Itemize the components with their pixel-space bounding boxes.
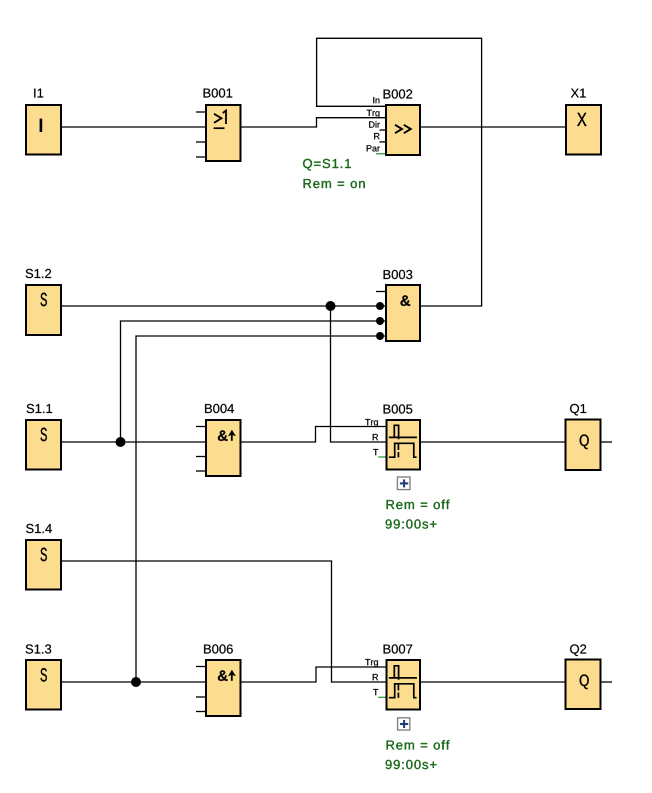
pin label T [373,449,378,455]
param text Rem = off (B007) [387,740,450,750]
wire S1.1 branch to B003 in3 [121,321,386,442]
label S1.2 [26,269,51,278]
OR gate B001 [196,105,241,161]
pin label Trg [367,110,380,118]
input block S1.2 [26,285,61,335]
wire S1.1 to B004 [62,441,205,443]
pin label Trg [365,659,378,667]
label B003 [384,270,413,279]
wire S1.3 to B006 [62,681,205,683]
pin label In [373,97,379,103]
label B005 [384,404,413,413]
AND edge gate B004 [196,420,241,476]
label S1.1 [27,404,52,413]
pin label R [373,434,378,440]
pin label R [373,674,378,680]
pin dot B003 in4 [376,332,384,340]
label B002 [384,89,413,98]
param text 99:00s+ (B005) [386,519,437,528]
feedback wire B003 out to B002 In [317,38,482,306]
wire S1.3 branch to B003 in4 [136,336,385,682]
label B007 [384,644,413,653]
shift register B002 [376,105,420,155]
AND edge gate B006 [196,660,241,716]
label S1.3 [26,644,52,653]
wire S1.2 branch to B005 R [331,306,386,442]
input block S1.3 [26,660,61,710]
label S1.4 [26,524,52,533]
AND gate B003 [376,285,420,341]
junction dot S1.1 branch [116,437,126,447]
input block S1.1 [26,420,61,470]
output block X1 [566,105,601,155]
wire B004 to B005 Trg [242,427,386,443]
wire B002 to X1 [421,126,565,128]
wire S1.2 to B003 [62,305,385,307]
output block Q2 [566,660,613,710]
input block I1 [26,105,61,155]
label Q1 [570,404,586,416]
pin dot B003 in3 [376,317,384,325]
expand button B007 [398,718,410,730]
wire B007 to Q2 [421,681,565,683]
wire B001 to B002 Trg [242,118,386,127]
timer B007 [378,660,420,710]
pin label Par [367,145,380,151]
input block S1.4 [26,540,61,590]
junction dot S1.2 branch [326,301,336,311]
wire B006 to B007 Trg [242,667,386,682]
wire B005 to Q1 [421,441,565,443]
param text Q=S1.1 [303,159,351,171]
label B006 [204,644,233,653]
output block Q1 [566,420,613,471]
pin label T [373,689,378,695]
timer B005 [378,420,420,470]
label Q2 [570,644,586,656]
wire S1.4 to B007 R [62,561,386,682]
junction dot S1.3 branch [131,677,141,687]
pin label R [374,133,379,139]
label B004 [205,404,234,413]
expand button B005 [397,477,410,490]
param text Rem = on [304,179,365,188]
pin label Dir [369,121,380,128]
label I1 [34,89,43,98]
wire I1 to B001 [62,126,205,128]
pin dot B003 in2 [376,302,384,310]
param text 99:00s+ (B007) [386,760,437,769]
label B001 [204,88,233,97]
pin label Trg [365,419,378,427]
label X1 [571,89,586,98]
param text Rem = off (B005) [387,500,450,510]
